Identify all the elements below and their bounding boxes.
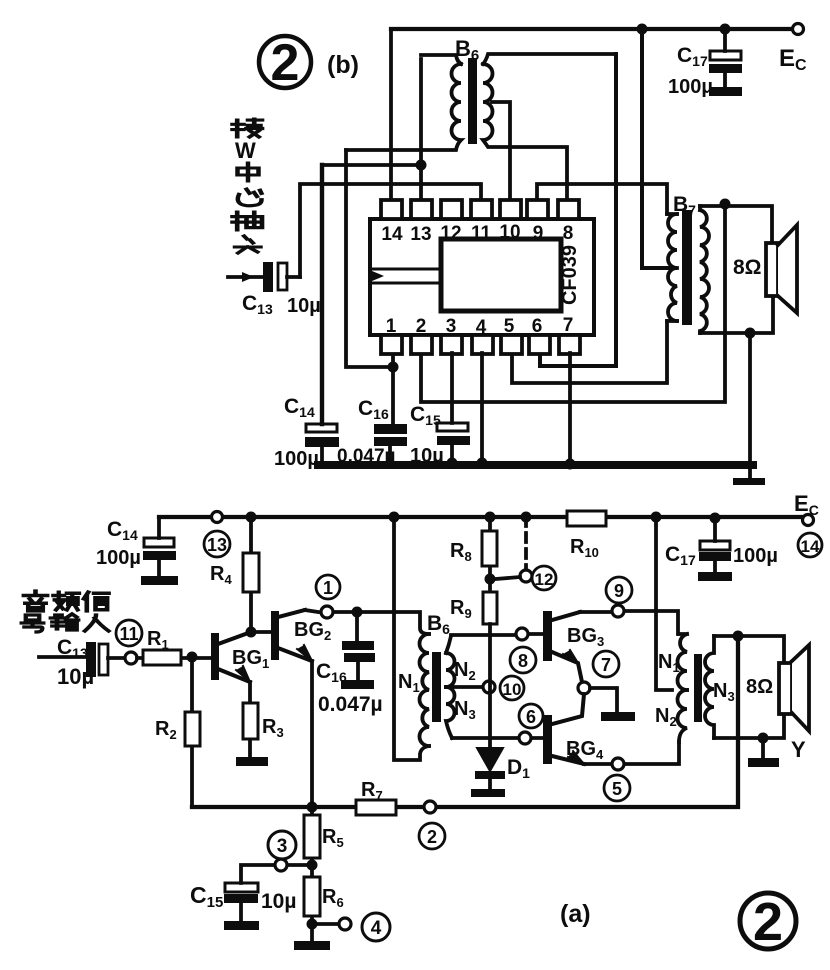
capacitor C14 (section b) [305, 424, 339, 462]
transformer B6 (section b) [346, 54, 616, 200]
junction speaker top node [720, 199, 731, 210]
circled label 1 [316, 575, 340, 599]
svg-text:10µ: 10µ [287, 295, 321, 317]
svg-text:2: 2 [427, 827, 437, 847]
wire B7 secondary bottom to speaker [700, 296, 773, 333]
svg-text:(b): (b) [327, 51, 359, 79]
B7a winding N2 [678, 690, 688, 742]
B6 secondary center tap to pin 10 [492, 102, 510, 200]
node terminal 12 [520, 570, 532, 582]
B6 secondary winding [483, 54, 616, 200]
svg-text:12: 12 [535, 570, 554, 589]
circled label 14 [798, 533, 822, 557]
pin box 7 [559, 335, 580, 354]
svg-text:100µ: 100µ [733, 545, 778, 567]
wire pin 9 to B7 primary top [537, 184, 667, 214]
pin box 4 [472, 335, 493, 354]
resistor R7 [356, 800, 396, 815]
capacitor C16 (section a) [341, 612, 375, 689]
circled label 2 [419, 823, 445, 849]
node terminal 8 [516, 628, 528, 640]
circled label 7 [593, 651, 619, 677]
B6a winding N1 [420, 634, 430, 746]
svg-text:2: 2 [416, 316, 427, 337]
junction pin13/C14 [416, 160, 427, 171]
transformer B7 (section b) [667, 206, 709, 333]
wire BG4 emitter to B7a N2 bottom (node 5) [584, 742, 679, 764]
svg-text:7: 7 [601, 655, 611, 675]
IC U1 CF039 body [370, 219, 594, 335]
transistor BG4 [543, 694, 584, 764]
pin box 5 [501, 335, 522, 354]
junction rail R4 [246, 512, 257, 523]
wire C14 feed vertical [320, 165, 324, 424]
char 接 [233, 119, 262, 137]
wire BG1 collector to BG2 base [251, 630, 271, 634]
node terminal 7 [578, 682, 590, 694]
svg-text:13: 13 [410, 224, 431, 245]
junction rail N1 return [389, 512, 400, 523]
svg-text:Y: Y [791, 737, 806, 762]
capacitor C15 (section a) [224, 883, 259, 930]
wire pin 2 to speaker top node [421, 204, 725, 402]
circled label 12 [532, 566, 556, 590]
capacitor C17 (section a) [698, 518, 732, 581]
node 9 wire BG3 collector to B7a N1 top [580, 611, 678, 634]
pin box 3 [441, 335, 462, 354]
wire node 7 to ground [590, 688, 617, 712]
figure number circled 2 (bottom, section a) [740, 892, 796, 952]
wire rail to B7a center tap [656, 517, 672, 690]
resistor R10 [567, 511, 606, 526]
svg-text:7: 7 [563, 315, 574, 336]
feedback wire node 2 line [192, 636, 738, 807]
svg-text:11: 11 [119, 624, 138, 644]
svg-text:10: 10 [503, 680, 522, 699]
svg-text:13: 13 [207, 535, 227, 555]
junction top rail at B7 tap feed [637, 24, 648, 35]
junction speaker ground [758, 733, 769, 744]
pin box 1 [381, 335, 402, 354]
svg-text:8: 8 [518, 651, 528, 671]
wire B6a N1 bottom to supply rail [394, 517, 429, 760]
svg-text:3: 3 [277, 836, 288, 857]
capacitor C14 (section a) [141, 517, 178, 585]
char 信 [84, 592, 109, 611]
speaker LS1 (section b) [766, 225, 797, 313]
node terminal 6 [519, 732, 531, 744]
svg-text:9: 9 [614, 581, 624, 601]
junction rail C17 [710, 513, 721, 524]
wire N2 top to BG3 base (node 8) [451, 634, 543, 635]
Chinese note: connect to W center tap (vertical text) [233, 119, 262, 253]
svg-text:12: 12 [440, 223, 461, 244]
node terminal 10 [483, 681, 495, 693]
capacitor C15 (section b) [437, 353, 470, 462]
ground of speaker (section a) [761, 738, 765, 758]
resistor R2 [185, 657, 200, 807]
node terminal 1 [321, 606, 333, 618]
svg-text:100µ: 100µ [668, 76, 713, 98]
circled label 3 [268, 831, 296, 859]
diode D1 [471, 748, 505, 797]
char 音 [24, 591, 47, 611]
svg-text:8: 8 [563, 223, 574, 244]
circled label 6 [519, 704, 543, 728]
B6 core [468, 58, 477, 144]
svg-text:1: 1 [386, 316, 397, 337]
resistor R8 [482, 517, 497, 579]
svg-text:9: 9 [533, 223, 544, 244]
svg-text:(a): (a) [560, 900, 591, 928]
svg-text:6: 6 [532, 316, 543, 337]
transistor BG2 [271, 610, 312, 661]
wire N3 bottom to BG4 base (node 6) [452, 736, 543, 740]
svg-text:100µ: 100µ [274, 448, 319, 470]
svg-text:6: 6 [526, 707, 536, 727]
junction R1/R2/base [187, 652, 198, 663]
junction C16 tap [352, 607, 363, 618]
junction C15 rail [447, 458, 458, 469]
pin box 13 [411, 200, 432, 219]
svg-text:10µ: 10µ [261, 890, 296, 913]
node 1 wire BG2 collector to B6 primary top [305, 610, 429, 634]
transistor BG1 [211, 632, 251, 682]
transformer B6 (section a) [420, 634, 455, 746]
svg-text:2: 2 [271, 34, 300, 92]
pin box 8 [558, 200, 579, 219]
ground rail (section b) [318, 461, 753, 469]
IC inner block [441, 239, 561, 311]
speaker Y (section a) [779, 645, 809, 731]
junction pin4 rail [477, 458, 488, 469]
node 4 wire [312, 922, 339, 926]
svg-text:CF039: CF039 [559, 245, 581, 305]
junction pin 1 node [388, 362, 399, 373]
B7 secondary winding [700, 206, 709, 333]
input coupling capacitor C13 (section a) [86, 642, 124, 677]
B6a winding N3 [446, 687, 455, 738]
ground symbol at rail end (section b) [748, 469, 752, 479]
wire B6 primary bottom to pin 1 node [346, 150, 393, 367]
B7 primary winding [668, 214, 677, 321]
svg-text:11: 11 [471, 223, 492, 244]
Ec terminal (section b) [793, 24, 804, 35]
node 3 wire to C15 [241, 865, 306, 883]
circled label 4 [362, 913, 390, 941]
svg-text:5: 5 [612, 779, 622, 799]
char 心 [238, 189, 262, 206]
wire N2/N3 center tap (node 10) [446, 685, 482, 689]
svg-text:5: 5 [504, 316, 515, 337]
char 号 [22, 615, 44, 632]
pin box 11 [471, 200, 492, 219]
circled label 13 [204, 531, 230, 557]
char 头 [235, 236, 261, 253]
wire pin 14 to top rail [389, 29, 393, 200]
char 入 [85, 615, 109, 631]
ground of node 7 [601, 712, 635, 721]
B6a core [432, 652, 441, 722]
char 输 [51, 614, 78, 630]
capacitor C16 (section b) [374, 424, 407, 462]
B7 core [682, 210, 692, 325]
svg-text:14: 14 [381, 224, 403, 245]
junction node 4 [307, 919, 318, 930]
B7a core [694, 654, 702, 722]
resistor R9 [483, 579, 497, 748]
circled label 8 [510, 647, 536, 673]
resistor R4 [243, 517, 259, 632]
pin box 10 [500, 200, 521, 219]
wire pin 1 down to C16 [391, 353, 395, 424]
wire pin 7 to ground rail [568, 353, 572, 462]
ground of R6 [310, 924, 314, 941]
resistor R5 [304, 807, 320, 865]
svg-text:W: W [235, 138, 256, 163]
svg-text:8Ω: 8Ω [746, 676, 773, 698]
pin box 2 [411, 335, 432, 354]
junction feedback tap [733, 631, 744, 642]
junction node 3 [307, 860, 318, 871]
wire N3 bottom to speaker bottom [714, 714, 784, 738]
resistor R3 [243, 682, 258, 757]
pin box 12 [441, 200, 462, 219]
wire pin 4 to ground rail [480, 353, 484, 462]
ground of R3 [236, 757, 268, 766]
node terminal 2 [424, 801, 436, 813]
input lead (section a) [39, 655, 87, 659]
figure number circled 2 (top, section b) [259, 34, 311, 92]
junction speaker bottom to ground rail [745, 328, 756, 339]
resistor R1 [137, 650, 211, 665]
IC pin1 notch channel [372, 269, 441, 283]
input coupling capacitor C13 (section b) [228, 262, 300, 292]
junction pin7 rail [565, 459, 576, 470]
svg-text:3: 3 [446, 316, 457, 337]
svg-text:8Ω: 8Ω [733, 256, 762, 279]
circled label 11 [116, 620, 142, 646]
svg-text:100µ: 100µ [96, 547, 141, 569]
transistor BG3 [543, 611, 582, 682]
junction R8/R9 node 12 [485, 574, 496, 585]
svg-text:0.047µ: 0.047µ [318, 693, 383, 716]
dashed link to node 12 [524, 517, 528, 568]
node terminal 9 [612, 605, 624, 617]
junction rail B7 tap [651, 512, 662, 523]
svg-text:1: 1 [323, 578, 333, 598]
wire N3 top to speaker top [714, 636, 784, 663]
capacitor C17 (section b) [709, 24, 742, 97]
B7a winding N1 [678, 634, 688, 690]
wire speaker bottom to ground rail [748, 333, 752, 462]
node terminal 4 [339, 918, 351, 930]
char 中 [238, 163, 259, 181]
junction R4/BG1 collector [246, 627, 257, 638]
circled label 10 [500, 676, 524, 700]
svg-text:4: 4 [371, 918, 382, 939]
pin numbers top row [381, 222, 573, 338]
node terminal 13 [212, 512, 223, 523]
wire pin 5 to B7 primary bottom [512, 321, 667, 383]
resistor R6 [304, 865, 320, 924]
junction node2/R5/BG2e [307, 802, 318, 813]
wire C13 to pin 11 [300, 184, 481, 277]
pin box 6 [529, 335, 550, 354]
Ec terminal (section a) [803, 515, 814, 526]
supply rail (section a) [159, 515, 803, 519]
junction rail R8 [485, 512, 496, 523]
top supply rail Ec (section b) [391, 27, 793, 31]
node terminal 5 [612, 758, 624, 770]
wire BG2 emitter down to node 2 line [310, 661, 314, 807]
wire B6 secondary top to pin 6 [540, 54, 616, 366]
svg-text:2: 2 [753, 892, 783, 952]
wire top rail down to B7 center tap [642, 29, 667, 268]
svg-text:10: 10 [499, 222, 520, 243]
circled label 9 [606, 577, 632, 603]
wire B7 secondary top to speaker [700, 206, 772, 243]
char 抽 [233, 212, 262, 230]
char 频 [53, 592, 79, 610]
transformer B7 (section a) [678, 634, 715, 742]
svg-text:10µ: 10µ [57, 664, 94, 689]
B6a winding N2 [446, 636, 455, 687]
wire B6 primary top to pin 13 and C14 [322, 59, 421, 200]
svg-text:4: 4 [476, 317, 487, 338]
Chinese note: audio signal input [22, 591, 109, 632]
svg-text:14: 14 [801, 537, 820, 556]
B6 primary winding [346, 55, 461, 150]
wire node 12 to R8/R9 [496, 577, 520, 579]
pin box 14 [381, 200, 402, 219]
pin box 9 [527, 200, 548, 219]
node terminal 3 [275, 859, 287, 871]
node terminal 11 [125, 652, 137, 664]
B7a winding N3 [705, 636, 714, 738]
circled label 5 [604, 775, 630, 801]
